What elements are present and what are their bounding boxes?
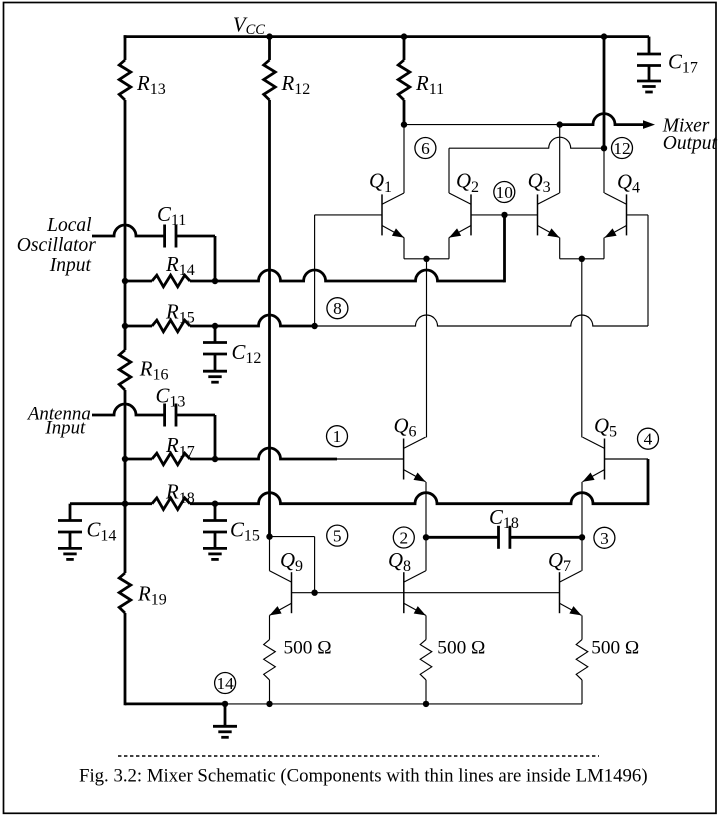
- svg-text:2: 2: [399, 529, 408, 548]
- svg-text:Fig. 3.2: Mixer Schematic (Com: Fig. 3.2: Mixer Schematic (Components wi…: [79, 765, 648, 786]
- svg-text:Input: Input: [49, 255, 92, 276]
- svg-text:Input: Input: [44, 418, 86, 439]
- svg-text:12: 12: [613, 139, 630, 158]
- svg-text:Oscillator: Oscillator: [17, 235, 96, 256]
- svg-text:8: 8: [333, 299, 342, 318]
- svg-text:500 Ω: 500 Ω: [284, 638, 332, 659]
- svg-text:6: 6: [421, 139, 430, 158]
- svg-text:500 Ω: 500 Ω: [437, 638, 485, 659]
- svg-text:3: 3: [600, 529, 609, 548]
- svg-text:10: 10: [496, 183, 513, 202]
- svg-text:4: 4: [644, 430, 653, 449]
- svg-text:14: 14: [216, 674, 234, 693]
- svg-text:Output: Output: [663, 133, 718, 154]
- svg-text:Local: Local: [46, 215, 91, 236]
- svg-text:500 Ω: 500 Ω: [591, 638, 639, 659]
- svg-text:1: 1: [333, 427, 342, 446]
- svg-text:5: 5: [333, 527, 342, 546]
